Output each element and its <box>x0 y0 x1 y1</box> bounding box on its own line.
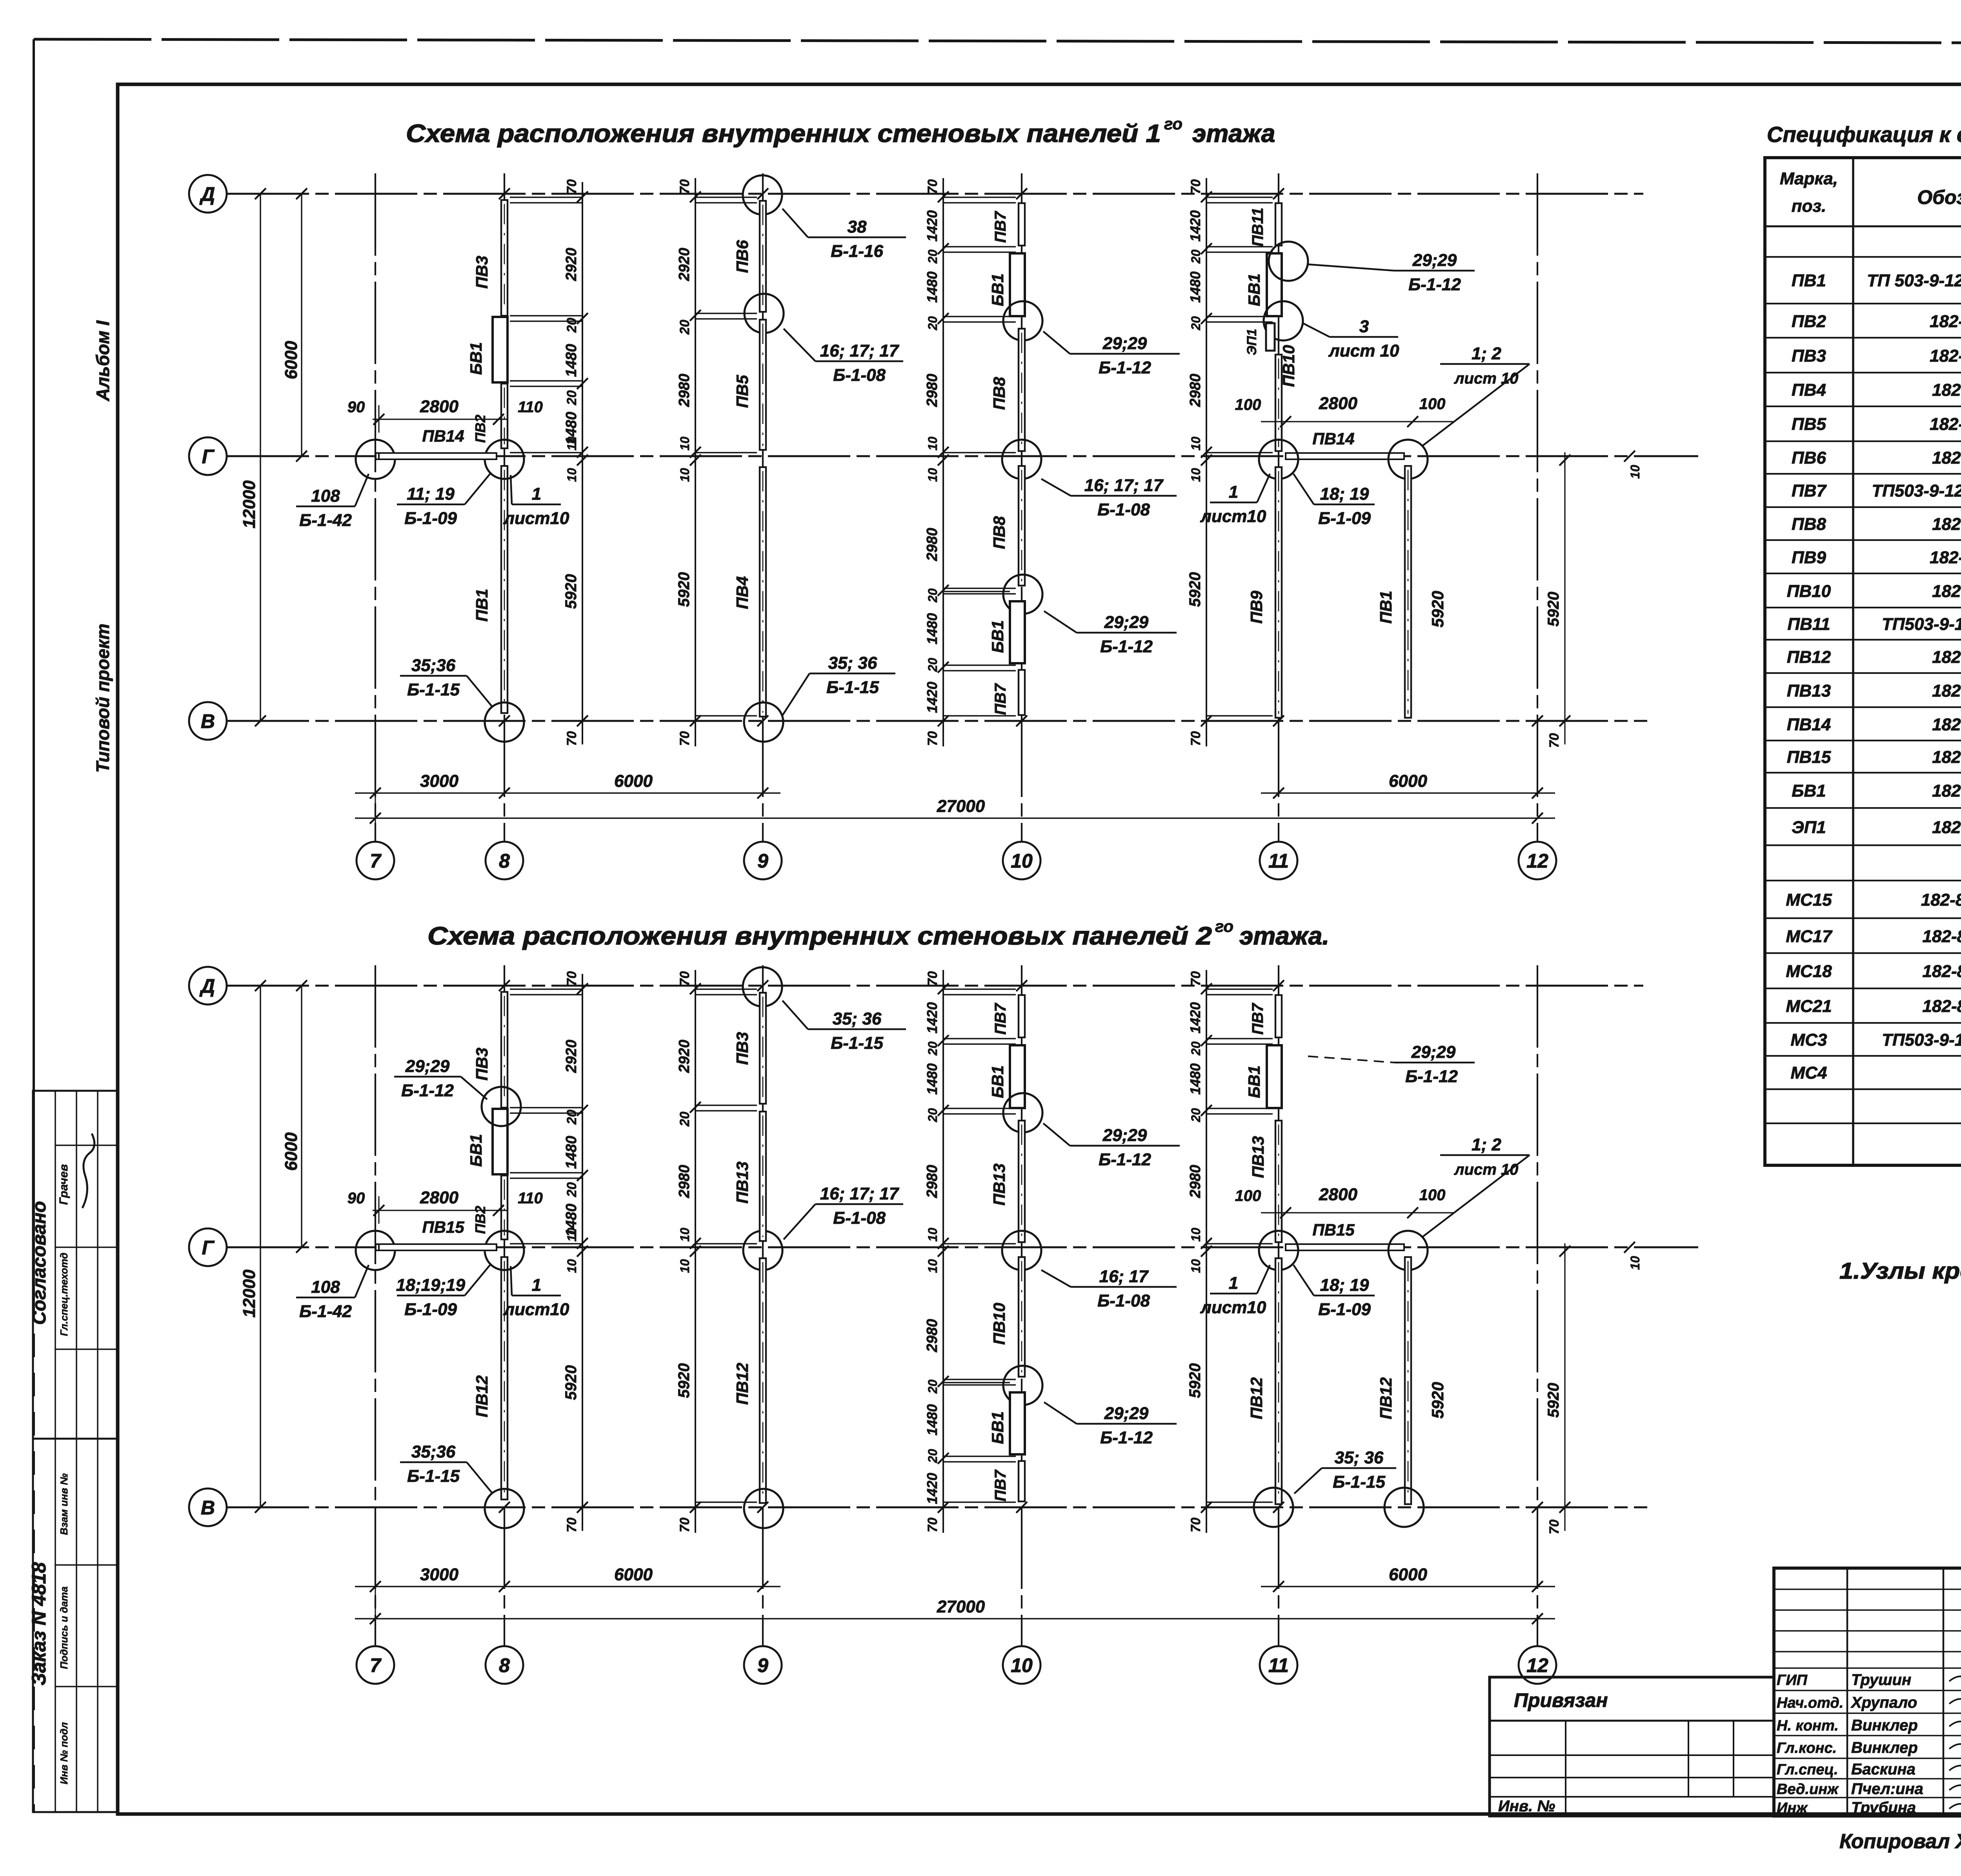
callout circle col9 joint <box>744 294 784 333</box>
box Привязан <box>1490 1677 1774 1816</box>
svg-text:Б-1-12: Б-1-12 <box>1099 358 1151 377</box>
svg-text:16; 17; 17: 16; 17; 17 <box>820 1184 900 1203</box>
callout circle col7/Г <box>356 1231 395 1270</box>
svg-text:2920: 2920 <box>676 248 693 282</box>
svg-text:Б-1-15: Б-1-15 <box>1333 1472 1385 1492</box>
svg-text:Б-1-08: Б-1-08 <box>1097 1291 1150 1310</box>
svg-text:108: 108 <box>311 1277 340 1297</box>
panel ПВ14 on axis Г (11-12) <box>1286 453 1404 459</box>
leader 108 Б-1-42 <box>296 474 369 530</box>
callout circle col10 upper <box>1003 301 1042 340</box>
svg-text:ПВ12: ПВ12 <box>1247 1377 1266 1419</box>
svg-text:Инж: Инж <box>1777 1800 1808 1816</box>
svg-text:Г: Г <box>202 446 215 468</box>
svg-text:МС18: МС18 <box>1786 962 1832 981</box>
svg-text:ПВ12: ПВ12 <box>733 1363 751 1405</box>
svg-text:ПВ4: ПВ4 <box>1792 380 1826 400</box>
margin box Согласовано <box>33 1091 118 1439</box>
svg-text:Б-1-08: Б-1-08 <box>833 1208 886 1228</box>
svg-text:2800: 2800 <box>1319 1185 1357 1204</box>
svg-text:110: 110 <box>518 398 543 416</box>
svg-text:ПВ14: ПВ14 <box>1787 715 1831 734</box>
panel ПВ3 (col 8 upper) <box>501 200 508 316</box>
axis 1Д <box>227 193 1643 195</box>
svg-text:70: 70 <box>564 1518 579 1532</box>
svg-text:ПВ13: ПВ13 <box>990 1163 1008 1205</box>
svg-text:7: 7 <box>370 1654 382 1676</box>
svg-text:35; 36: 35; 36 <box>828 653 877 673</box>
dim chain col 10 <box>924 970 949 1533</box>
svg-text:Б-1-15: Б-1-15 <box>831 1034 883 1053</box>
sheet outer border left <box>33 39 35 1294</box>
leader 16;17;17 Б-1-08 col9 <box>784 1184 903 1239</box>
dim line 6000 (11-12) <box>1261 1586 1555 1587</box>
svg-text:ПВ8: ПВ8 <box>990 377 1008 410</box>
svg-text:Согласовано: Согласовано <box>29 1201 50 1325</box>
svg-text:Трушин: Трушин <box>1851 1671 1911 1689</box>
svg-text:2980: 2980 <box>924 374 940 408</box>
panel ПВ10 col 10 <box>1019 1257 1025 1377</box>
panel ПВ1 (col 8 lower) <box>501 466 508 713</box>
svg-text:МС17: МС17 <box>1786 927 1833 946</box>
svg-text:Инв № подл: Инв № подл <box>58 1722 70 1784</box>
svg-text:поз.: поз. <box>1792 197 1826 216</box>
svg-text:70: 70 <box>677 731 692 746</box>
dim chain col 8 <box>562 971 588 1532</box>
svg-text:ПВ13: ПВ13 <box>1249 1136 1267 1178</box>
svg-text:Гл.конс.: Гл.конс. <box>1777 1740 1837 1756</box>
svg-text:ПВ13: ПВ13 <box>1787 681 1831 701</box>
svg-text:20: 20 <box>926 658 940 672</box>
callout circle col10/Г <box>1002 440 1041 479</box>
svg-text:20: 20 <box>1189 1041 1203 1056</box>
svg-text:70: 70 <box>564 731 579 746</box>
svg-text:6000: 6000 <box>282 1132 301 1171</box>
svg-text:1: 1 <box>1229 482 1238 502</box>
svg-text:Заказ N 4818: Заказ N 4818 <box>28 1562 50 1686</box>
svg-text:ПВ1: ПВ1 <box>473 589 491 622</box>
svg-text:2920: 2920 <box>563 248 580 282</box>
callout circle col10 lower <box>1003 1366 1042 1405</box>
svg-text:182-82 в.3-1: 182-82 в.3-1 <box>1932 648 1961 667</box>
svg-text:2800: 2800 <box>420 397 458 416</box>
svg-text:Хрупало: Хрупало <box>1850 1694 1917 1711</box>
svg-text:70: 70 <box>925 731 940 746</box>
leader 16; 17; 17 Б-1-08 col10/Г <box>1041 476 1177 519</box>
svg-text:20: 20 <box>677 320 692 335</box>
svg-text:Привязан: Привязан <box>1514 1689 1608 1711</box>
svg-text:ПВ8: ПВ8 <box>1792 515 1826 534</box>
svg-text:ПВ3: ПВ3 <box>733 1032 751 1065</box>
svg-text:12000: 12000 <box>240 480 259 528</box>
svg-text:ПВ8: ПВ8 <box>990 516 1008 549</box>
svg-text:Б-1-09: Б-1-09 <box>1318 1300 1371 1319</box>
dim chain col 9 <box>675 178 701 746</box>
callout circle ПВ bar /Г <box>1388 1231 1428 1270</box>
svg-text:20: 20 <box>564 318 579 333</box>
PLAN 2: Схема 2-го этажа <box>189 965 1698 1684</box>
svg-text:2980: 2980 <box>676 374 693 408</box>
svg-text:182-82 в.3-1: 182-82 в.3-1 <box>1932 681 1961 701</box>
leader 35; 36 col9 top <box>782 1001 906 1053</box>
leader 35;36 Б-1-15 (bottom) <box>1294 1448 1396 1494</box>
svg-text:БВ1: БВ1 <box>467 1134 485 1166</box>
svg-text:Б-1-12: Б-1-12 <box>1405 1067 1458 1086</box>
svg-text:18; 19: 18; 19 <box>1320 1276 1369 1295</box>
leader 16; 17 Б-1-08 col10/Г <box>1041 1267 1177 1310</box>
svg-text:БВ1: БВ1 <box>1245 273 1263 306</box>
svg-text:100: 100 <box>1419 395 1446 413</box>
svg-text:90: 90 <box>347 398 365 416</box>
svg-text:6000: 6000 <box>282 341 301 379</box>
svg-text:10: 10 <box>678 1259 692 1273</box>
svg-text:5920: 5920 <box>562 1365 580 1400</box>
dim 12000 vertical <box>260 986 261 1507</box>
svg-text:70: 70 <box>1188 179 1203 194</box>
svg-text:1420: 1420 <box>1187 1002 1203 1034</box>
panel ПВ13 col 11 <box>1275 1121 1282 1242</box>
svg-text:10: 10 <box>926 1228 940 1242</box>
svg-text:20: 20 <box>564 390 579 406</box>
callout circle col11 upper <box>1269 242 1308 281</box>
svg-text:ПВ7: ПВ7 <box>992 683 1009 715</box>
vent block БВ1 col 10 lower <box>1010 1392 1025 1454</box>
panel ПВ2 col 8 <box>501 384 508 448</box>
leader 1 лист10 col11 <box>1200 1265 1270 1317</box>
svg-text:МС21: МС21 <box>1786 997 1832 1016</box>
svg-text:182-82 в. 3-1: 182-82 в. 3-1 <box>1930 346 1961 366</box>
svg-text:лист10: лист10 <box>1200 507 1266 526</box>
vent block БВ1 col 10 lower <box>1010 601 1025 663</box>
svg-text:1420: 1420 <box>924 210 940 242</box>
panel ПВ15 on axis Г (11-12) <box>1286 1244 1404 1250</box>
svg-text:2800: 2800 <box>1319 394 1357 413</box>
svg-text:Схема расположения внутренних: Схема расположения внутренних стеновых п… <box>406 119 1161 147</box>
axis 2Д <box>227 985 1643 987</box>
svg-text:2920: 2920 <box>676 1040 693 1074</box>
svg-text:лист10: лист10 <box>503 509 569 528</box>
svg-text:182-82 в. 3-1: 182-82 в. 3-1 <box>1930 312 1961 331</box>
svg-text:Б-1-12: Б-1-12 <box>1100 637 1153 656</box>
svg-text:70: 70 <box>925 971 940 986</box>
svg-text:7: 7 <box>370 850 382 872</box>
dim 5920/70 right of col 12 <box>1564 1243 1565 1531</box>
dim 6000 vertical <box>301 986 302 1247</box>
svg-text:8: 8 <box>499 1654 510 1676</box>
leader 35;36 Б-1-15 col8/В <box>400 1442 493 1494</box>
svg-text:ПВ7: ПВ7 <box>1792 481 1827 500</box>
svg-text:лист10: лист10 <box>503 1300 569 1319</box>
leader 29;29 Б-1-12 col10 lower <box>1044 611 1177 656</box>
svg-text:Копировал Хс ;г-;о: Копировал Хс ;г-;о <box>1839 1830 1961 1853</box>
svg-text:182-82.7-1-080: 182-82.7-1-080 <box>1923 997 1961 1016</box>
svg-text:ПВ3: ПВ3 <box>473 1048 491 1081</box>
PLAN 1: Схема 1-го этажа <box>189 173 1698 879</box>
svg-text:5920: 5920 <box>1545 1383 1562 1418</box>
svg-text:ГИП: ГИП <box>1777 1672 1808 1689</box>
svg-text:2980: 2980 <box>924 528 940 562</box>
svg-text:16; 17; 17: 16; 17; 17 <box>1084 476 1164 495</box>
svg-text:Винклер: Винклер <box>1851 1739 1918 1756</box>
svg-text:В: В <box>201 1497 215 1519</box>
svg-text:10: 10 <box>1189 468 1203 482</box>
svg-text:Винклер: Винклер <box>1851 1717 1918 1734</box>
svg-text:1420: 1420 <box>1187 210 1203 242</box>
dim 12000 vertical <box>260 194 261 721</box>
svg-text:го: го <box>1215 917 1233 935</box>
svg-text:2800: 2800 <box>420 1188 458 1207</box>
svg-text:этажа.: этажа. <box>1239 922 1329 950</box>
svg-text:5920: 5920 <box>675 572 693 607</box>
svg-text:20: 20 <box>926 1041 940 1056</box>
title block <box>1774 1568 1961 1816</box>
svg-text:МС3: МС3 <box>1791 1030 1827 1050</box>
svg-text:6000: 6000 <box>1389 1565 1427 1584</box>
svg-text:20: 20 <box>564 1110 579 1125</box>
svg-text:10: 10 <box>926 468 940 482</box>
svg-text:ПВ6: ПВ6 <box>733 240 751 273</box>
svg-text:18; 19: 18; 19 <box>1320 484 1369 504</box>
dim chain col 8 <box>562 179 588 746</box>
panel ПВ10 col 11 <box>1275 355 1282 451</box>
svg-text:6000: 6000 <box>614 772 653 791</box>
axis 2В <box>227 1507 1647 1508</box>
svg-text:10: 10 <box>678 437 692 451</box>
leader 1;2 лист 10 <box>1440 1154 1530 1156</box>
svg-text:1480: 1480 <box>563 344 580 377</box>
dim chain col 11 <box>1186 970 1212 1533</box>
svg-text:100: 100 <box>1235 1187 1261 1205</box>
svg-text:1420: 1420 <box>924 1002 940 1034</box>
svg-text:1: 1 <box>532 484 541 504</box>
leader 29;29 Б-1-12 col11 <box>1308 251 1475 294</box>
svg-text:ПВ1: ПВ1 <box>1377 591 1395 624</box>
svg-text:12: 12 <box>1526 1654 1548 1676</box>
svg-text:70: 70 <box>1547 1519 1562 1534</box>
svg-text:2980: 2980 <box>1187 1165 1204 1199</box>
svg-text:1: 1 <box>1229 1274 1238 1293</box>
svg-text:Гл.спец.техотд: Гл.спец.техотд <box>58 1253 70 1336</box>
svg-text:ПВ7: ПВ7 <box>992 1003 1009 1035</box>
svg-text:100: 100 <box>1235 396 1261 413</box>
callout circle col9/Г <box>743 1231 782 1270</box>
svg-text:110: 110 <box>518 1190 543 1207</box>
svg-text:Б-1-15: Б-1-15 <box>407 1467 460 1486</box>
column axis 7 <box>375 173 376 842</box>
panel ПВ7 col 10 top <box>1019 995 1025 1037</box>
svg-text:ЭП1: ЭП1 <box>1244 329 1259 355</box>
svg-text:3000: 3000 <box>420 1565 458 1584</box>
svg-text:Б-1-42: Б-1-42 <box>299 511 352 530</box>
svg-text:Спецификация к схемам располож: Спецификация к схемам расположения внутр… <box>1767 122 1961 147</box>
column axis 11 <box>1278 173 1279 842</box>
svg-text:2980: 2980 <box>1187 374 1204 408</box>
svg-text:ПВ5: ПВ5 <box>733 375 751 408</box>
svg-text:лист 10: лист 10 <box>1454 370 1519 387</box>
vent block БВ1 col 10 upper <box>1010 253 1025 316</box>
specification table grid <box>1765 158 1961 1165</box>
callout circle col10/Г <box>1002 1231 1041 1270</box>
leader 38 col9 top <box>782 209 906 261</box>
svg-text:МС15: МС15 <box>1786 890 1832 910</box>
dim 6000 vertical <box>301 194 302 456</box>
leader 29;29 Б-1-12 col11 (dashed) <box>1308 1056 1394 1063</box>
svg-text:БВ1: БВ1 <box>1245 1065 1263 1098</box>
svg-text:Б-1-09: Б-1-09 <box>404 1300 457 1319</box>
svg-text:ПВ1: ПВ1 <box>1792 271 1826 290</box>
svg-text:8: 8 <box>499 850 510 872</box>
svg-text:10: 10 <box>926 437 940 451</box>
svg-text:1.Узлы крепления панелей приня: 1.Узлы крепления панелей приняты по сери… <box>1839 1258 1961 1284</box>
svg-text:1: 1 <box>532 1276 541 1295</box>
svg-text:2980: 2980 <box>924 1319 940 1353</box>
svg-text:10: 10 <box>926 1259 940 1273</box>
column axis 8 <box>504 965 505 1646</box>
svg-text:Б-1-16: Б-1-16 <box>831 242 883 261</box>
svg-text:70: 70 <box>925 1518 940 1532</box>
panel ПВ8 col 10 <box>1019 466 1025 586</box>
svg-text:лист 10: лист 10 <box>1328 341 1399 360</box>
column axis 9 <box>762 173 764 842</box>
svg-text:Вед.инж: Вед.инж <box>1777 1781 1839 1798</box>
svg-text:10: 10 <box>1628 1256 1642 1270</box>
svg-text:29;29: 29;29 <box>1102 334 1147 353</box>
svg-text:Б-1-09: Б-1-09 <box>404 509 457 528</box>
svg-text:ПВ5: ПВ5 <box>1792 415 1826 434</box>
svg-text:182-82 в.3-1: 182-82 в.3-1 <box>1932 818 1961 837</box>
svg-text:Б-1-15: Б-1-15 <box>407 680 460 699</box>
svg-text:35;36: 35;36 <box>411 1442 456 1461</box>
svg-text:6000: 6000 <box>1389 772 1427 791</box>
svg-text:5920: 5920 <box>1545 592 1562 627</box>
svg-text:10: 10 <box>565 1259 579 1273</box>
svg-text:ПВ12: ПВ12 <box>473 1375 491 1417</box>
panel ПВ11 col 11 top <box>1275 203 1282 246</box>
svg-text:ПВ12: ПВ12 <box>1787 648 1831 667</box>
specification table rows <box>1786 233 1961 1083</box>
svg-text:182-82 в.3-1: 182-82 в.3-1 <box>1932 582 1961 601</box>
svg-text:Грачев: Грачев <box>57 1164 70 1205</box>
svg-text:70: 70 <box>564 971 579 986</box>
svg-text:29;29: 29;29 <box>1104 613 1149 632</box>
panel ПВ9 col 11 lower <box>1275 467 1282 718</box>
vent block БВ1 col 10 upper <box>1010 1045 1025 1108</box>
svg-text:29;29: 29;29 <box>1104 1404 1149 1423</box>
column axis 8 <box>504 173 505 842</box>
svg-text:70: 70 <box>677 971 692 986</box>
leader 18;19 Б-1-09 col11 <box>1293 1265 1375 1319</box>
svg-text:5920: 5920 <box>1186 1363 1204 1398</box>
svg-text:9: 9 <box>757 1654 768 1676</box>
svg-text:ТП 503-9-12.86 -КЖИ.080-02: ТП 503-9-12.86 -КЖИ.080-02 <box>1867 271 1961 290</box>
svg-text:3: 3 <box>1359 317 1369 336</box>
svg-text:1420: 1420 <box>924 1473 940 1504</box>
svg-text:108: 108 <box>311 486 340 506</box>
svg-text:Б-1-09: Б-1-09 <box>1318 509 1371 528</box>
svg-text:9: 9 <box>757 850 768 872</box>
svg-text:5920: 5920 <box>1186 572 1204 607</box>
svg-text:18;19;19: 18;19;19 <box>396 1276 466 1295</box>
panel ПВ12 (col 8 lower) <box>501 1257 508 1499</box>
svg-text:5920: 5920 <box>1428 591 1447 627</box>
svg-text:Альбом I: Альбом I <box>93 320 113 402</box>
leader 29;29 Б-1-12 col10 upper <box>1043 1123 1180 1169</box>
column axis 10 <box>1021 965 1022 1646</box>
svg-text:1480: 1480 <box>924 613 940 644</box>
svg-text:ТП503-9-12.86 -КЖИ080-01: ТП503-9-12.86 -КЖИ080-01 <box>1872 481 1961 500</box>
svg-text:70: 70 <box>677 179 692 194</box>
callout circle col8/В <box>485 702 524 742</box>
leader 29;29 Б-1-12 col10 lower <box>1044 1402 1177 1447</box>
leader 1 лист10 <box>503 475 569 528</box>
margin box Заказ N 4818 <box>33 1439 118 1812</box>
svg-text:1480: 1480 <box>1187 1063 1203 1095</box>
svg-text:Д: Д <box>199 183 215 205</box>
svg-text:70: 70 <box>1188 731 1203 746</box>
svg-text:5920: 5920 <box>562 574 580 609</box>
svg-text:70: 70 <box>677 1518 692 1532</box>
svg-text:2980: 2980 <box>924 1165 940 1199</box>
callout circle col11/Г <box>1259 440 1298 479</box>
svg-text:Б-1-12: Б-1-12 <box>1100 1428 1153 1447</box>
callout circle col10 upper <box>1003 1093 1042 1132</box>
svg-text:182-82 в.3-1: 182-82 в.3-1 <box>1932 781 1961 801</box>
svg-text:1480: 1480 <box>924 1404 940 1436</box>
dim 5920/70 right of col 12 <box>1564 452 1565 744</box>
svg-text:10: 10 <box>565 468 579 482</box>
svg-text:ПВ3: ПВ3 <box>1792 346 1826 366</box>
column axis 12 <box>1537 965 1538 1646</box>
svg-text:Пчел:ина: Пчел:ина <box>1851 1780 1923 1798</box>
leader 35;36 Б-1-15 col8/В <box>400 656 493 707</box>
panel ПВ6 col 9 upper <box>760 201 766 312</box>
svg-text:ПВ7: ПВ7 <box>1249 1003 1266 1035</box>
column axis 10 <box>1021 173 1022 842</box>
svg-text:го: го <box>1164 115 1182 133</box>
callout circle col9/Д <box>743 175 782 215</box>
electro panel ЭП1 <box>1266 323 1275 351</box>
dim 90 2800 110 <box>373 419 508 420</box>
svg-text:БВ1: БВ1 <box>988 1065 1007 1098</box>
svg-text:В: В <box>201 710 215 732</box>
callout circle col9/Д <box>743 967 782 1006</box>
panel ПВ5 col 9 <box>760 320 766 450</box>
callout circle col8/В <box>485 1489 524 1528</box>
svg-text:16; 17: 16; 17 <box>1099 1267 1149 1286</box>
callout circle col11/В <box>1254 1488 1293 1527</box>
dim 100 2800 100 <box>1261 1212 1453 1213</box>
column axis 9 <box>762 965 764 1646</box>
svg-text:Подпись и дата: Подпись и дата <box>58 1587 70 1669</box>
svg-text:Взам инв №: Взам инв № <box>58 1473 70 1535</box>
svg-text:Б-1-12: Б-1-12 <box>401 1081 454 1100</box>
svg-text:ПВ7: ПВ7 <box>992 211 1009 243</box>
svg-text:ПВ10: ПВ10 <box>1279 345 1298 387</box>
leader 29;29 Б-1-12 col10 upper <box>1043 331 1180 377</box>
svg-text:10: 10 <box>1011 1654 1033 1676</box>
svg-text:12: 12 <box>1526 850 1548 872</box>
svg-text:2920: 2920 <box>563 1040 580 1074</box>
svg-text:182-82 в.3-1: 182-82 в.3-1 <box>1932 715 1961 734</box>
svg-text:ТП503-9-12.86 -КЖИ 080: ТП503-9-12.86 -КЖИ 080 <box>1882 615 1961 634</box>
svg-text:182-82.7-1-070: 182-82.7-1-070 <box>1923 962 1961 981</box>
panel ПВ14 on axis Г (7-8) <box>376 453 382 459</box>
svg-text:ПВ10: ПВ10 <box>1787 582 1831 601</box>
svg-text:ПВ6: ПВ6 <box>1792 448 1826 468</box>
panel ПВ12 col 11 lower <box>1275 1258 1282 1504</box>
svg-text:Н. конт.: Н. конт. <box>1777 1718 1839 1734</box>
leader 18;19 Б-1-09 col11 <box>1293 474 1375 528</box>
